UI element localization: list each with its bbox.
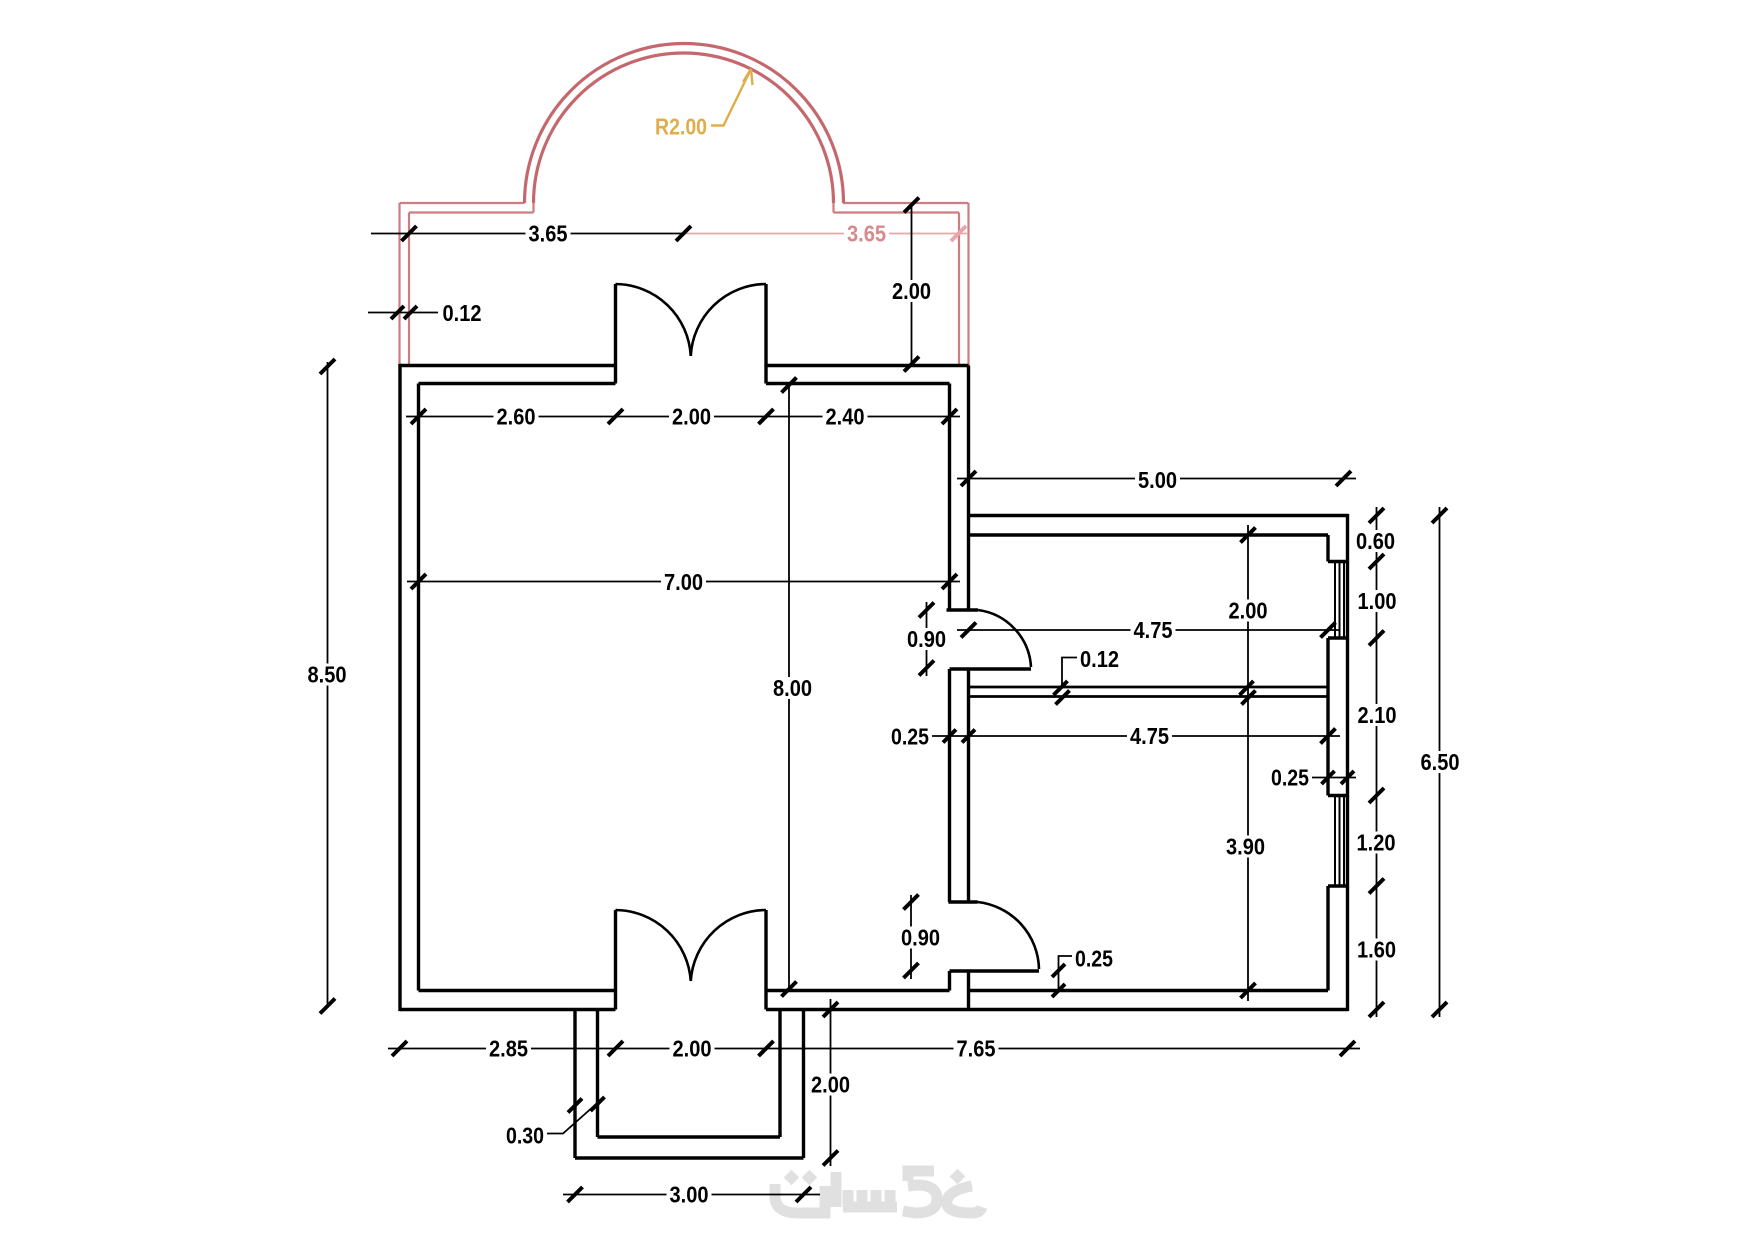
dim line 2.00/3.90 rooms — [1247, 525, 1249, 1001]
top double door right swing arc — [691, 284, 766, 356]
wing right wall inner middle — [1326, 638, 1329, 796]
entrance porch bottom wall inner — [598, 1135, 781, 1138]
divider wall bottom line (0.12 wall) — [969, 695, 1329, 698]
dim line 0.90 top-right door — [926, 602, 928, 676]
svg-text:7.65: 7.65 — [957, 1036, 996, 1062]
watermark khamsat logo (gray arabic text) — [775, 1169, 982, 1213]
svg-text:0.25: 0.25 — [891, 724, 929, 750]
dim tick pink right 3.65 — [951, 226, 966, 241]
main right wall inner upper — [948, 384, 951, 611]
left wall inner — [417, 384, 420, 991]
svg-text:7.00: 7.00 — [664, 569, 703, 595]
porch wall right outer (pink) — [967, 203, 969, 368]
svg-text:2.40: 2.40 — [826, 404, 865, 430]
svg-text:2.85: 2.85 — [489, 1036, 528, 1062]
svg-text:2.60: 2.60 — [497, 404, 536, 430]
window 1 pane line b — [1339, 562, 1341, 639]
window 2 pane line a — [1334, 796, 1336, 887]
dim break ticks at divider crossing — [1240, 681, 1254, 695]
entrance porch right wall inner — [778, 1010, 781, 1138]
window 1 top cap — [1328, 560, 1348, 563]
svg-text:0.25: 0.25 — [1075, 946, 1113, 972]
main right wall outer lower — [967, 971, 970, 1010]
dim line 3.65 right (pink) — [684, 233, 968, 235]
porch arch left spring joint (pink) — [532, 203, 534, 213]
porch wall top-left inner (pink) — [409, 211, 534, 213]
svg-text:3.00: 3.00 — [670, 1182, 709, 1208]
porch arch inner arc (pink) — [534, 53, 834, 203]
svg-text:R2.00: R2.00 — [655, 114, 707, 140]
top double door right jamb and leaf — [764, 284, 767, 384]
top-right room door opening top cap — [947, 608, 979, 611]
svg-text:0.90: 0.90 — [901, 925, 940, 951]
entrance porch left wall outer — [573, 1010, 576, 1159]
bottom-right room door opening top cap — [948, 900, 977, 903]
svg-text:0.30: 0.30 — [506, 1123, 544, 1149]
top wall inner right segment — [766, 382, 950, 385]
wing right wall outer — [1346, 514, 1349, 1011]
svg-text:1.20: 1.20 — [1357, 830, 1396, 856]
window 2 pane line b — [1339, 796, 1341, 887]
svg-text:4.75: 4.75 — [1134, 617, 1173, 643]
svg-text:8.00: 8.00 — [773, 675, 812, 701]
dim line 8.50 — [327, 362, 329, 1008]
main right wall outer upper — [967, 366, 970, 611]
dim line 0.60/1.00/2.10/1.20/1.60 — [1376, 507, 1378, 1017]
svg-text:2.10: 2.10 — [1358, 702, 1397, 728]
wing right wall inner upper stub — [1326, 535, 1329, 562]
leader arrowhead R2.00 — [743, 69, 753, 85]
entrance double door left jamb and leaf — [614, 910, 617, 1010]
svg-text:3.90: 3.90 — [1226, 834, 1265, 860]
dim line 5.00 — [957, 478, 1356, 480]
main right wall outer middle — [967, 669, 970, 902]
top-right room door leaf — [950, 667, 1032, 670]
entrance double door left swing arc — [616, 910, 691, 981]
dim line 0.90 bottom-right door — [910, 895, 912, 979]
svg-text:6.50: 6.50 — [1421, 749, 1460, 775]
top wall outer right segment — [766, 364, 969, 367]
svg-text:0.12: 0.12 — [1080, 646, 1119, 672]
bottom-right room door leaf — [950, 969, 1040, 972]
porch arch outer arc R2.00 (pink) — [525, 43, 844, 203]
svg-text:2.00: 2.00 — [672, 404, 711, 430]
leader line R2.00 — [711, 69, 751, 126]
bottom wall inner left segment — [419, 989, 616, 992]
window 1 bottom cap — [1328, 636, 1348, 639]
wing top wall inner — [969, 533, 1329, 536]
dim line 8.00 — [788, 384, 790, 991]
svg-text:2.00: 2.00 — [892, 278, 931, 304]
svg-text:2.00: 2.00 — [1229, 598, 1268, 624]
top wall outer left segment — [400, 364, 616, 367]
top double door left jamb and leaf — [614, 284, 617, 384]
svg-text:1.00: 1.00 — [1358, 588, 1397, 614]
bottom wall inner mid segment — [766, 989, 950, 992]
bottom wall outer right segment — [766, 1008, 1348, 1011]
bottom wall outer left segment — [400, 1008, 616, 1011]
porch wall left inner (pink) — [408, 213, 410, 366]
svg-text:0.12: 0.12 — [443, 300, 482, 326]
svg-text:0.60: 0.60 — [1356, 528, 1395, 554]
dim line 7.00 — [407, 581, 960, 583]
svg-text:4.75: 4.75 — [1130, 723, 1169, 749]
window 2 top cap — [1328, 794, 1348, 797]
main right wall inner lower — [948, 971, 951, 991]
svg-text:2.00: 2.00 — [811, 1072, 850, 1098]
wing right wall inner lower — [1326, 886, 1329, 991]
entrance double door right swing arc — [691, 910, 766, 981]
porch arch right spring joint (pink) — [832, 203, 834, 213]
svg-text:3.65: 3.65 — [529, 221, 568, 247]
wing top wall outer — [969, 514, 1348, 517]
leader line for 0.12 divider wall — [1062, 658, 1078, 688]
leader line 0.25 bottom stub — [1059, 956, 1073, 992]
divider wall top line (0.12 wall) — [969, 686, 1329, 689]
svg-text:2.00: 2.00 — [673, 1036, 712, 1062]
dim line 3.65 left (black) — [371, 233, 684, 235]
svg-text:0.90: 0.90 — [907, 626, 946, 652]
dim line 2.00 entrance porch depth — [830, 999, 832, 1166]
window 1 pane line a — [1334, 562, 1336, 639]
entrance double door right jamb and leaf — [764, 910, 767, 1010]
porch wall left outer (pink) — [398, 203, 400, 368]
leader line for 0.12 porch wall — [368, 312, 438, 314]
main right wall inner middle — [948, 669, 951, 902]
dim line 2.00 porch depth — [911, 204, 913, 366]
top-right room door swing arc — [978, 610, 1031, 667]
dim line 0.25/4.75 bottom room — [930, 735, 1340, 737]
dim line 2.60/2.00/2.40 — [406, 416, 960, 418]
leader line 0.30 porch wall — [547, 1102, 599, 1134]
dim line 6.50 — [1439, 507, 1441, 1017]
svg-text:3.65: 3.65 — [847, 221, 886, 247]
entrance porch bottom wall outer — [575, 1156, 804, 1159]
window 1 pane line c — [1343, 562, 1345, 639]
window 2 pane line c — [1343, 796, 1345, 887]
porch wall top-right outer (pink) — [843, 202, 969, 204]
svg-text:0.25: 0.25 — [1271, 765, 1309, 791]
left wall outer — [398, 364, 401, 1011]
window 2 bottom cap — [1328, 884, 1348, 887]
bottom-right room door swing arc — [978, 902, 1040, 969]
svg-text:1.60: 1.60 — [1357, 937, 1396, 963]
dim line 2.85/2.00/7.65 — [388, 1048, 1360, 1050]
dim line 4.75 top room — [957, 629, 1340, 631]
top wall inner left segment — [419, 382, 616, 385]
svg-text:5.00: 5.00 — [1138, 467, 1177, 493]
dim line 3.00 — [563, 1194, 820, 1196]
leader line 0.25 right wall — [1312, 777, 1356, 779]
porch wall top-right inner (pink) — [834, 211, 960, 213]
porch wall top-left outer (pink) — [400, 202, 525, 204]
wing bottom wall inner segment — [969, 989, 1329, 992]
svg-text:8.50: 8.50 — [308, 662, 347, 688]
entrance porch left wall inner — [596, 1010, 599, 1138]
porch wall right inner (pink) — [958, 213, 960, 366]
top double door left swing arc — [616, 284, 691, 356]
entrance porch right wall outer — [802, 1010, 805, 1159]
